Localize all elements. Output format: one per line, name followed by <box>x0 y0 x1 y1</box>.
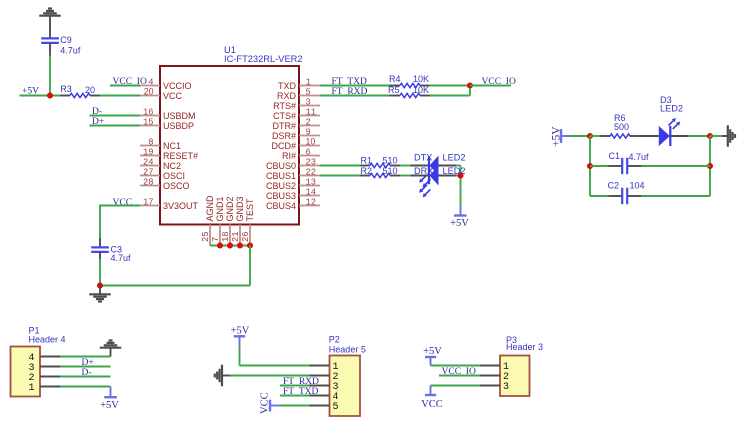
svg-text:VCC: VCC <box>421 399 443 410</box>
svg-text:CTS#: CTS# <box>273 111 296 121</box>
svg-text:3: 3 <box>306 98 311 108</box>
svg-text:CBUS2: CBUS2 <box>266 181 296 191</box>
svg-text:OSCO: OSCO <box>163 181 190 191</box>
wire C9 to ground <box>49 17 51 39</box>
wire TXD to R4 <box>320 85 390 87</box>
svg-text:USBDM: USBDM <box>163 111 196 121</box>
wire GND bottom rail <box>100 285 250 287</box>
svg-text:DTR#: DTR# <box>272 121 296 131</box>
svg-text:AGND: AGND <box>205 195 215 222</box>
ground earth symbol (below C3) <box>99 286 101 295</box>
svg-text:20: 20 <box>85 85 95 95</box>
wire right rail <box>709 136 711 196</box>
svg-text:4.7uf: 4.7uf <box>629 152 650 162</box>
pin 5 RXD of U1 <box>299 95 320 97</box>
power VCC symbol (P3) <box>430 386 432 396</box>
svg-text:16: 16 <box>143 108 154 118</box>
resistor R5 <box>390 95 401 97</box>
svg-text:510: 510 <box>383 155 398 165</box>
svg-text:510: 510 <box>383 166 398 176</box>
svg-text:3: 3 <box>503 382 509 393</box>
pin 26 TEST of U1 <box>249 225 251 246</box>
svg-text:28: 28 <box>143 178 154 188</box>
svg-text:C9: C9 <box>60 35 72 45</box>
ground earth symbol (top-left) <box>39 15 61 17</box>
svg-text:RESET#: RESET# <box>163 151 198 161</box>
ground earth symbol (P2, rotated) <box>221 365 223 387</box>
svg-text:R4: R4 <box>389 74 401 84</box>
connector P3 Header 3 body <box>500 356 530 397</box>
wire R4 to VCC_IO <box>430 85 471 87</box>
svg-text:RTS#: RTS# <box>273 101 296 111</box>
pin 1 TXD of U1 <box>299 85 320 87</box>
svg-text:VCCIO: VCCIO <box>163 81 192 91</box>
pin 18 GND2 of U1 <box>229 225 231 246</box>
svg-text:VCC: VCC <box>163 91 183 101</box>
pin 21 GND3 of U1 <box>239 225 241 246</box>
svg-text:R5: R5 <box>388 85 400 95</box>
svg-text:GND3: GND3 <box>235 196 245 221</box>
svg-text:LED2: LED2 <box>443 166 466 176</box>
wire D+ to USBDP pin <box>90 125 141 127</box>
junction C1 left <box>587 163 593 169</box>
pin 17 3V3OUT of U1 <box>140 205 160 207</box>
svg-text:C2: C2 <box>608 180 620 190</box>
svg-text:15: 15 <box>143 118 154 128</box>
svg-text:Header 4: Header 4 <box>29 334 66 344</box>
svg-text:OSCI: OSCI <box>163 171 185 181</box>
wire C9 to +5V net <box>49 56 51 96</box>
resistor R3 <box>60 95 70 97</box>
pin 22 CBUS1 of U1 <box>299 175 320 177</box>
pin 23 CBUS0 of U1 <box>299 165 320 167</box>
svg-text:DRX: DRX <box>414 166 433 176</box>
wire P1 pin1 to +5V <box>60 386 111 388</box>
svg-text:RI#: RI# <box>282 151 296 161</box>
svg-text:1: 1 <box>28 383 34 394</box>
svg-text:6: 6 <box>306 148 311 158</box>
svg-text:P2: P2 <box>329 334 340 344</box>
svg-text:23: 23 <box>306 158 317 168</box>
pin 7 GND1 of U1 <box>219 225 221 246</box>
pin 14 CBUS3 of U1 <box>299 195 320 197</box>
svg-text:DTX: DTX <box>414 152 432 162</box>
wire P1 pin3 D+ <box>60 366 111 368</box>
svg-text:VCC: VCC <box>113 198 133 208</box>
junction +5V/C9 <box>47 92 53 98</box>
pin 9 DSR# of U1 <box>299 135 320 137</box>
svg-text:10K: 10K <box>413 85 429 95</box>
pin 6 RI# of U1 <box>299 155 320 157</box>
pin 10 DCD# of U1 <box>299 145 320 147</box>
wire P2 pin3 FT_RXD <box>280 385 310 387</box>
svg-text:7: 7 <box>211 237 221 242</box>
svg-text:5: 5 <box>306 88 311 98</box>
svg-text:14: 14 <box>306 188 317 198</box>
wire VCC_IO stub <box>470 85 511 87</box>
resistor R2 <box>360 175 370 177</box>
svg-text:GND2: GND2 <box>225 196 235 221</box>
svg-text:DSR#: DSR# <box>272 131 296 141</box>
svg-text:12: 12 <box>306 198 317 208</box>
svg-text:22: 22 <box>306 168 317 178</box>
junction TEST <box>247 242 253 248</box>
svg-text:+5V: +5V <box>423 346 442 357</box>
wire VCC branch down <box>99 205 101 239</box>
svg-text:RXD: RXD <box>277 91 297 101</box>
wire P2 pin2 to ground <box>230 375 310 377</box>
svg-text:TXD: TXD <box>278 81 297 91</box>
svg-text:104: 104 <box>630 180 645 190</box>
LED D3 LED2 <box>640 135 659 137</box>
wire GND bus down <box>249 246 251 286</box>
svg-text:R3: R3 <box>60 84 72 94</box>
wire CBUS1 to R2 <box>320 175 360 177</box>
wire P3 pin2 VCC_IO <box>439 375 480 377</box>
svg-text:LED2: LED2 <box>660 104 683 114</box>
svg-text:CBUS0: CBUS0 <box>266 161 296 171</box>
pin 25 AGND of U1 <box>209 225 211 246</box>
wire P1 pin2 D- <box>60 376 111 378</box>
wire CBUS0 to R1 <box>320 165 360 167</box>
capacitor C2 <box>590 195 609 197</box>
ground earth symbol (right, rotated) <box>722 135 728 137</box>
svg-text:24: 24 <box>143 158 154 168</box>
junction R4/R5 VCC_IO <box>467 82 473 88</box>
svg-text:10K: 10K <box>413 74 429 84</box>
junction GND3 <box>237 242 243 248</box>
resistor R4 <box>390 85 401 87</box>
junction GND2 <box>227 242 233 248</box>
svg-text:20: 20 <box>144 87 154 97</box>
svg-text:26: 26 <box>241 231 251 242</box>
svg-text:4.7uf: 4.7uf <box>60 46 81 56</box>
svg-text:NC2: NC2 <box>163 161 181 171</box>
svg-text:USBDP: USBDP <box>163 121 194 131</box>
wire LEDs to +5V <box>456 165 461 167</box>
svg-text:2: 2 <box>306 118 311 128</box>
power +5V symbol (below LEDs) <box>460 206 462 216</box>
capacitor C3 <box>91 246 109 248</box>
svg-text:TEST: TEST <box>245 198 255 222</box>
svg-text:11: 11 <box>306 108 317 118</box>
pin 24 NC2 of U1 <box>140 165 160 167</box>
svg-text:19: 19 <box>143 148 154 158</box>
wire P2 pin1 to +5V <box>239 346 241 365</box>
wire R1 to LED DTX <box>400 165 411 167</box>
wire R2 to LED DRX <box>400 175 411 177</box>
svg-text:500: 500 <box>614 122 629 132</box>
power +5V symbol (P1) <box>110 387 112 398</box>
svg-text:5: 5 <box>332 402 338 413</box>
wire D- to USBDM pin <box>90 115 141 117</box>
pin 15 USBDP of U1 <box>140 125 160 127</box>
svg-text:10: 10 <box>306 137 316 147</box>
svg-text:17: 17 <box>143 198 154 208</box>
svg-text:Header 3: Header 3 <box>506 342 543 352</box>
svg-text:CBUS4: CBUS4 <box>266 201 296 211</box>
svg-text:DCD#: DCD# <box>271 141 296 151</box>
pin 11 CTS# of U1 <box>299 115 320 117</box>
svg-text:+5V: +5V <box>231 326 250 337</box>
svg-text:8: 8 <box>148 138 153 148</box>
pin 2 DTR# of U1 <box>299 125 320 127</box>
wire C3 to GND rail <box>99 259 101 286</box>
wire P2 pin4 FT_TXD <box>280 395 310 397</box>
svg-text:NC1: NC1 <box>163 141 181 151</box>
junction GND1 <box>217 242 223 248</box>
svg-text:25: 25 <box>201 231 211 242</box>
svg-text:R1: R1 <box>361 155 373 165</box>
wire R3 to VCC pin <box>100 95 140 97</box>
wire 3V3OUT to VCC <box>100 205 140 207</box>
connector P1 Header 4 body <box>11 347 41 397</box>
wire P1 pin4 to ground <box>60 356 111 358</box>
svg-text:CBUS1: CBUS1 <box>266 171 296 181</box>
junction +5V rail top-left <box>587 133 593 139</box>
pin 13 CBUS2 of U1 <box>299 185 320 187</box>
svg-text:IC-FT232RL-VER2: IC-FT232RL-VER2 <box>224 54 303 64</box>
svg-text:27: 27 <box>143 168 154 178</box>
pin 27 OSCI of U1 <box>140 175 160 177</box>
junction C3/GND rail <box>97 282 103 288</box>
capacitor C9 <box>41 37 59 39</box>
svg-text:+5V: +5V <box>450 218 469 229</box>
wire R5 up to junction <box>430 95 471 97</box>
wire P3 pin1 to +5V <box>431 365 481 367</box>
svg-text:R2: R2 <box>361 166 373 176</box>
pin 12 CBUS4 of U1 <box>299 205 320 207</box>
wire GND bus under U1 <box>210 245 250 247</box>
resistor R6 <box>600 135 611 137</box>
svg-text:GND1: GND1 <box>215 196 225 221</box>
wire D3 to ground <box>688 135 710 137</box>
svg-text:13: 13 <box>306 178 317 188</box>
connector P2 Header 5 body <box>330 356 361 417</box>
svg-text:+5V: +5V <box>100 400 119 411</box>
wire RXD to R5 <box>320 95 390 97</box>
svg-text:LED2: LED2 <box>443 152 466 162</box>
junction top-right rail <box>707 133 713 139</box>
pin 19 RESET# of U1 <box>140 155 160 157</box>
svg-text:CBUS3: CBUS3 <box>266 191 296 201</box>
LED DRX LED2 <box>411 175 430 177</box>
pin 3 RTS# of U1 <box>299 105 320 107</box>
wire P2 pin5 VCC <box>280 405 310 407</box>
ground earth symbol (P1) <box>110 348 112 357</box>
op-amp U1 IC-FT232RL-VER2 body <box>160 66 299 225</box>
wire +5V to R6 <box>570 135 590 137</box>
LED DTX LED2 <box>411 165 430 167</box>
wire left rail <box>589 136 591 196</box>
pin 4 VCCIO of U1 <box>140 85 160 87</box>
svg-text:1: 1 <box>306 78 311 88</box>
wire +5V rail <box>20 95 61 97</box>
pin 8 NC1 of U1 <box>140 145 160 147</box>
svg-text:18: 18 <box>221 231 231 242</box>
svg-text:Header 5: Header 5 <box>329 345 366 355</box>
junction LED DRX / +5V wire <box>457 172 463 178</box>
svg-text:4.7uf: 4.7uf <box>111 253 132 263</box>
junction C1 right <box>707 163 713 169</box>
pin 28 OSCO of U1 <box>140 185 160 187</box>
wire P3 pin3 to VCC <box>431 385 481 387</box>
pin 20 VCC of U1 <box>140 95 160 97</box>
wire VCC_IO to VCCIO pin <box>110 85 140 87</box>
pin 16 USBDM of U1 <box>140 115 160 117</box>
svg-text:C1: C1 <box>609 151 621 161</box>
capacitor C1 <box>590 165 609 167</box>
svg-text:3V3OUT: 3V3OUT <box>163 201 199 211</box>
resistor R1 <box>360 165 370 167</box>
svg-text:21: 21 <box>231 231 241 242</box>
